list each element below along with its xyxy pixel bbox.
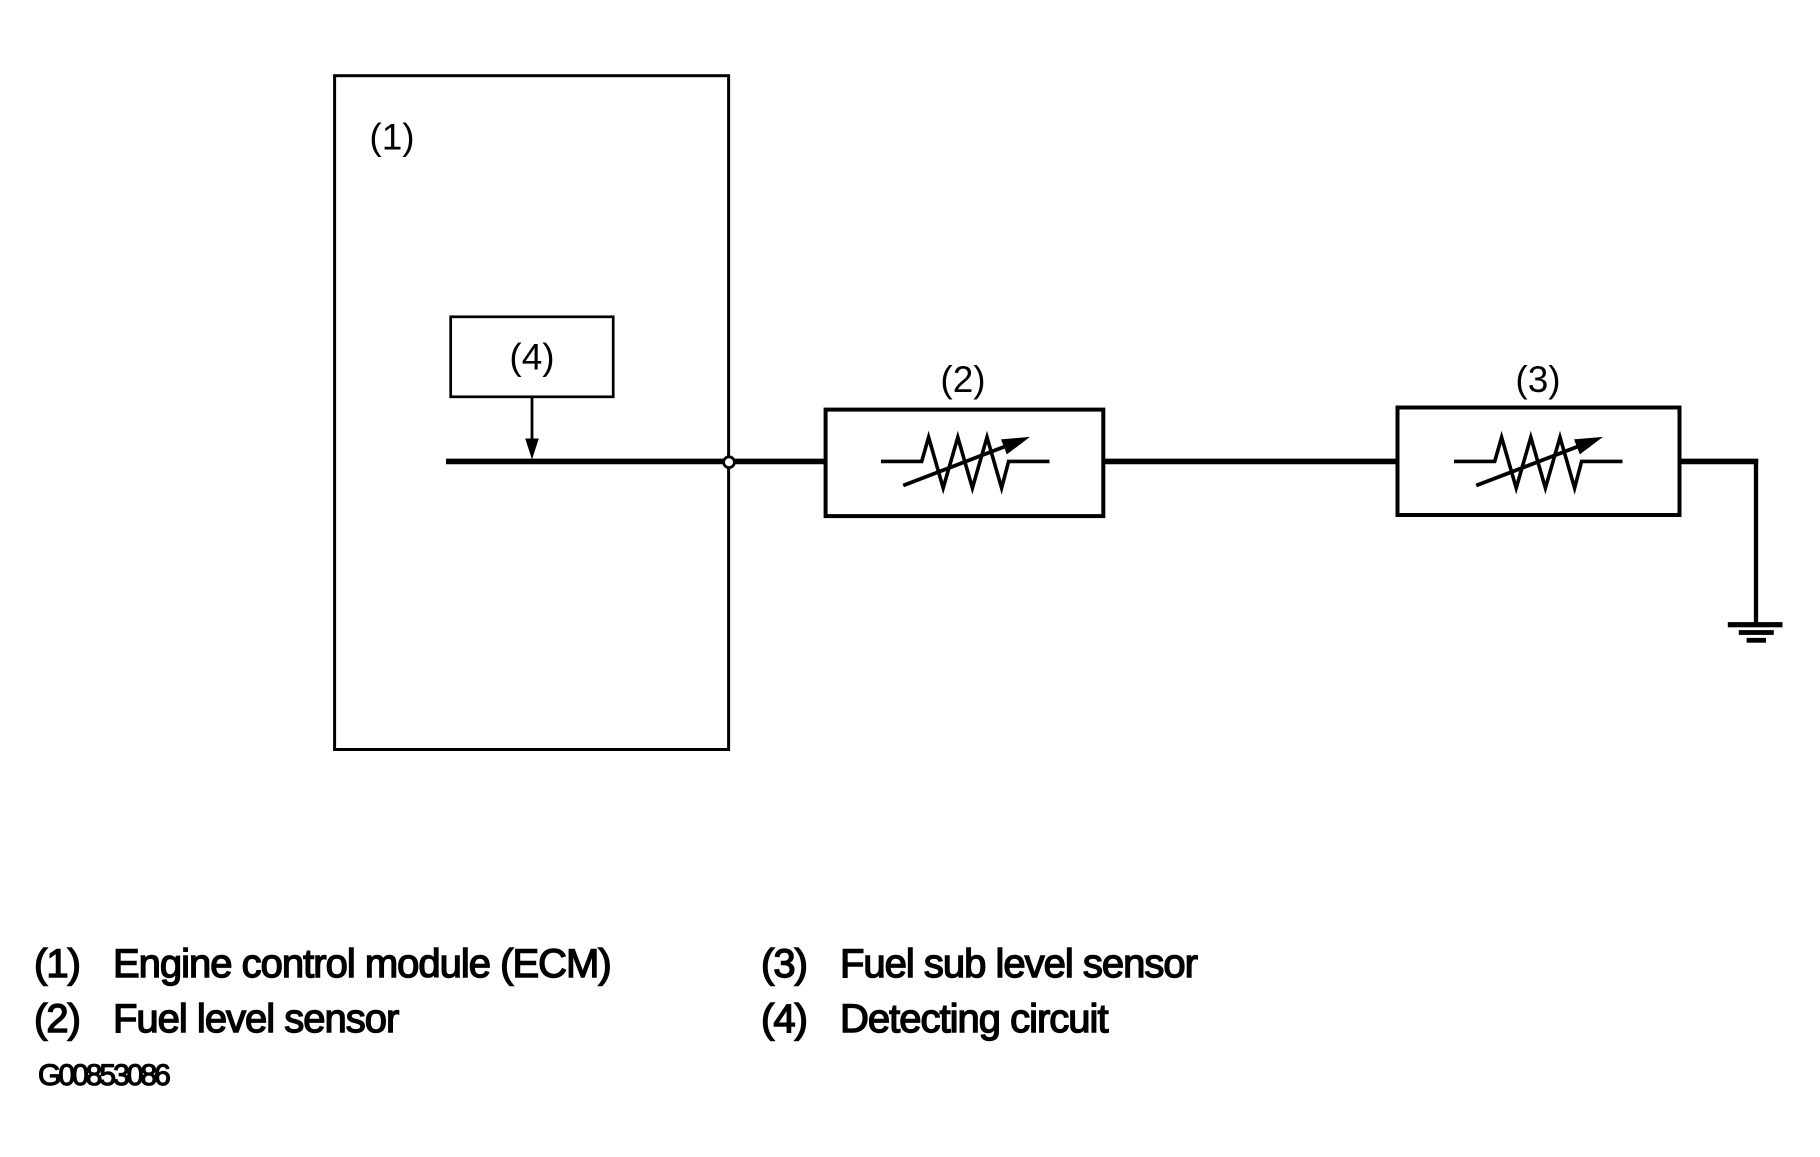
svg-text:(1): (1) (369, 117, 414, 158)
detecting circuit box (4) (451, 317, 614, 397)
variable resistor R2 arrow (1476, 443, 1587, 486)
svg-text:Fuel level sensor: Fuel level sensor (113, 997, 399, 1041)
arrowhead (525, 439, 539, 460)
variable resistor R2 in fuel sub level sensor (1454, 437, 1623, 488)
ground symbol (1728, 622, 1783, 643)
fuel sub level sensor box (3) (1398, 408, 1680, 516)
fuel level sensor box (2) (826, 410, 1104, 516)
wire fuel level sensor to fuel sub level sensor (1103, 459, 1398, 465)
wire fuel sub level sensor to ground corner (1680, 459, 1759, 465)
variable resistor R1 arrow (903, 443, 1014, 486)
svg-text:Fuel sub level sensor: Fuel sub level sensor (840, 942, 1198, 986)
svg-text:(2): (2) (940, 359, 985, 400)
svg-text:(2): (2) (34, 997, 80, 1041)
svg-text:Detecting circuit: Detecting circuit (840, 997, 1108, 1041)
svg-text:G00853086: G00853086 (38, 1059, 170, 1092)
svg-text:(1): (1) (34, 942, 80, 986)
wire node to fuel level sensor (729, 459, 827, 465)
wire vertical down to ground (1754, 459, 1758, 623)
node junction circle on ECM border (724, 457, 735, 468)
svg-text:(4): (4) (509, 337, 554, 378)
svg-text:(3): (3) (1515, 359, 1560, 400)
arrow shaft from detecting circuit (531, 397, 534, 441)
svg-text:(4): (4) (761, 997, 807, 1041)
ECM module box U1 (1) (335, 76, 729, 750)
svg-text:Engine control module (ECM): Engine control module (ECM) (113, 942, 611, 986)
wire ECM internal to node (446, 459, 729, 465)
variable resistor R1 in fuel level sensor (881, 437, 1050, 488)
svg-text:(3): (3) (761, 942, 807, 986)
